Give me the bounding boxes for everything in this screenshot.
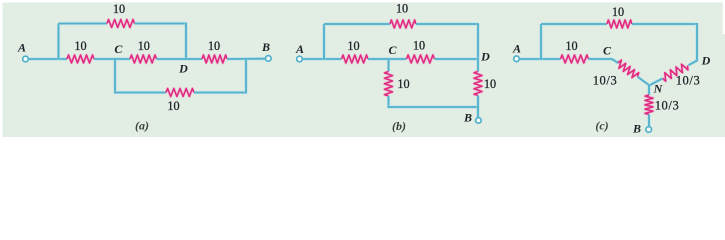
wire D down (b) [476,59,479,72]
svg-text:D: D [701,54,711,68]
svg-text:10: 10 [397,77,409,91]
wire junction up (b) [322,24,325,60]
svg-text:B: B [463,111,472,125]
wire top right (b) [416,22,478,25]
wire top right (c) [632,22,697,25]
terminal A (c) [514,56,520,62]
terminal A (a) [23,56,29,62]
resistor 10 A-C (b) [342,55,369,63]
svg-text:10: 10 [565,39,577,53]
wire resistor to D (b) [435,57,479,60]
wire junction up (a) [57,24,60,60]
svg-text:C: C [114,42,123,56]
resistor 10 C-D (b) [407,55,435,63]
svg-text:10: 10 [167,99,179,113]
resistor 10 under D (b) [474,72,482,96]
svg-text:D: D [178,62,188,76]
resistor 10/3 D-N (c) [663,64,688,81]
wire top down to D (a) [184,23,187,59]
svg-text:10/3: 10/3 [676,73,701,87]
wire C-resistor to D (a) [157,57,203,60]
wire top left (b) [324,22,390,25]
wire top left (a) [59,22,108,25]
figure background panel [3,3,725,138]
wire bottom (b) [388,105,479,108]
wire resistor to B (a) [227,57,266,61]
wire top down to D (c) [695,23,698,61]
wire N down (c) [647,85,650,96]
wire bottom up to main (a) [244,59,247,94]
terminal B (a) [266,56,272,62]
wire D resistor to B (b) [476,96,479,118]
circuit (b) [295,2,496,133]
svg-text:10: 10 [612,5,624,19]
svg-text:10: 10 [74,39,86,53]
resistor 10 bottom (a) [166,89,194,97]
svg-text:C: C [388,43,397,57]
svg-text:10: 10 [347,39,359,53]
wire resistor to B (c) [647,115,650,127]
resistor 10 C-D (a) [130,55,157,63]
wire C down (b) [387,59,390,72]
wire C down (a) [113,59,116,93]
svg-text:D: D [480,50,490,64]
wire bottom left (a) [114,91,166,94]
wire A to junction (a) [29,57,68,60]
circuit (a) [17,2,271,133]
resistor 10 top (c) [607,20,632,28]
wire D diagonal (c) [689,60,698,65]
svg-text:10: 10 [138,39,150,53]
terminal B (b) [476,118,482,124]
resistor 10 A-C (c) [561,55,589,63]
wire C diagonal (c) [611,59,618,63]
svg-text:10: 10 [396,2,408,16]
svg-text:10: 10 [208,39,220,53]
svg-text:(c): (c) [595,119,608,133]
svg-text:10: 10 [484,77,496,91]
svg-text:(a): (a) [135,119,149,133]
wire top down to D (b) [476,23,479,59]
wire resistor to C to resistor (a) [94,57,130,60]
resistor 10 top (a) [107,20,135,28]
terminal B (c) [646,127,652,133]
wire resistor to C (c) [589,57,613,60]
svg-text:10: 10 [413,39,425,53]
svg-text:C: C [603,44,612,58]
wire junction up (c) [539,24,542,60]
wire diagonal N side (c) [649,78,663,85]
wire A to resistor (c) [520,57,561,60]
wire top right (a) [135,22,187,25]
wire A to resistor (b) [303,57,342,60]
resistor 10 A-C (a) [67,55,94,63]
resistor 10/3 under N (c) [645,95,653,115]
svg-text:(b): (b) [392,119,406,133]
svg-text:A: A [295,42,304,56]
circuit (c) [512,5,711,136]
wire C resistor to bottom (b) [387,96,390,108]
wire top left (c) [541,22,607,25]
svg-text:A: A [17,41,26,55]
torn white edge top right [723,0,725,34]
terminal A (b) [297,56,303,62]
svg-text:A: A [512,42,521,56]
svg-text:10/3: 10/3 [593,74,618,88]
resistor 10 top (b) [390,20,416,28]
resistor 10 under C (b) [385,72,393,97]
svg-text:B: B [632,122,641,136]
resistor 10/3 C-N (c) [618,60,639,77]
wire bottom right (a) [194,91,247,94]
svg-text:10/3: 10/3 [655,98,680,112]
svg-text:10: 10 [113,2,125,16]
svg-text:B: B [261,40,270,54]
resistor 10 D-B (a) [202,55,227,63]
wire resistor to C to resistor (b) [368,57,407,60]
wire diagonal to N (c) [638,77,650,86]
